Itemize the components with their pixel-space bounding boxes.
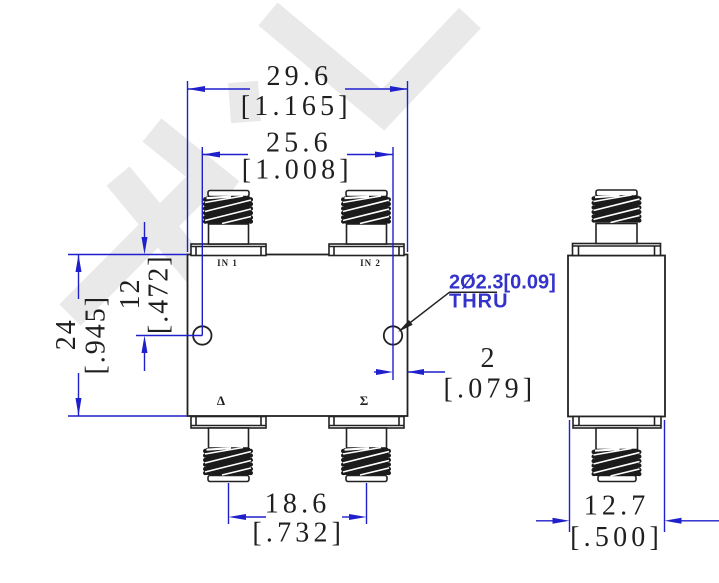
svg-text:[1.008]: [1.008] bbox=[242, 155, 353, 186]
svg-text:Δ: Δ bbox=[217, 393, 225, 408]
svg-text:[.079]: [.079] bbox=[443, 374, 536, 405]
svg-text:[.732]: [.732] bbox=[252, 517, 345, 548]
svg-text:IN 2: IN 2 bbox=[360, 258, 381, 268]
svg-text:12: 12 bbox=[115, 278, 146, 310]
svg-text:[.500]: [.500] bbox=[570, 522, 663, 553]
svg-text:2: 2 bbox=[480, 343, 498, 374]
svg-text:THRU: THRU bbox=[449, 291, 509, 313]
svg-text:29.6: 29.6 bbox=[266, 61, 332, 92]
svg-text:24: 24 bbox=[51, 318, 82, 350]
svg-text:IN 1: IN 1 bbox=[217, 258, 238, 268]
svg-text:Σ: Σ bbox=[360, 393, 369, 408]
svg-text:18.6: 18.6 bbox=[265, 489, 331, 520]
svg-text:[.472]: [.472] bbox=[144, 254, 175, 334]
svg-text:[.945]: [.945] bbox=[81, 295, 112, 375]
svg-text:[1.165]: [1.165] bbox=[241, 91, 352, 122]
svg-text:12.7: 12.7 bbox=[584, 490, 650, 521]
